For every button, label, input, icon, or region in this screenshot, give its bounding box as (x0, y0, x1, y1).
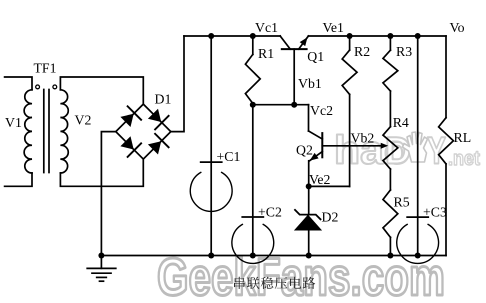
wire V2 bottom to bridge AC bottom (60, 159, 143, 186)
ground symbol (87, 256, 116, 282)
watermark haoDIY.net (334, 129, 480, 173)
svg-text:Ve1: Ve1 (323, 20, 345, 35)
wire bridge plus to top rail (171, 36, 184, 132)
svg-text:RL: RL (454, 130, 472, 145)
wire top rail Vc1 segment (184, 35, 280, 37)
svg-text:D2: D2 (322, 210, 339, 225)
wire C2 branch (252, 105, 254, 256)
svg-text:R4: R4 (393, 115, 409, 130)
zener diode D2 (294, 210, 322, 256)
wire Ve2 to R2 bottom (309, 185, 350, 187)
transformer TF1 primary winding V1 (24, 90, 32, 173)
svg-text:D1: D1 (155, 92, 172, 107)
resistor R1 (245, 36, 260, 105)
svg-text:Vc2: Vc2 (310, 103, 333, 118)
wire C3 branch (417, 36, 419, 256)
resistor R5 (383, 169, 398, 255)
diode D1 top-left (120, 106, 141, 127)
svg-text:Vb2: Vb2 (351, 131, 375, 146)
transformer TF1 primary lead wire (5, 77, 32, 90)
diode D1 bottom-left (120, 136, 141, 157)
svg-text:Vb1: Vb1 (298, 76, 322, 91)
wire C1 branch (210, 36, 212, 256)
diode D1 top-right (148, 109, 169, 130)
capacitor C3 (397, 217, 439, 263)
svg-text:+C2: +C2 (258, 205, 282, 220)
transformer phase dot right (53, 85, 57, 89)
transformer TF1 secondary winding V2 (60, 90, 68, 173)
wire Vb2 with wiper arrow (322, 143, 388, 149)
capacitor C2 (232, 217, 274, 263)
svg-text:Ve2: Ve2 (309, 172, 331, 187)
junction dots top rail (208, 33, 421, 39)
junction dot node Ve2 (306, 183, 312, 189)
svg-text:Q1: Q1 (307, 49, 324, 64)
svg-text:V1: V1 (5, 115, 22, 130)
transistor Q2 (309, 131, 323, 186)
wire bottom ground rail (101, 255, 446, 257)
wire bridge minus to ground rail (101, 132, 115, 256)
diode D1 bottom-right (148, 134, 169, 155)
svg-text:R5: R5 (394, 195, 410, 210)
transformer phase dot left (36, 85, 40, 89)
wire V2 top to bridge AC top (60, 77, 143, 104)
svg-text:V2: V2 (75, 113, 92, 128)
svg-text:+C3: +C3 (423, 205, 447, 220)
svg-text:Vc1: Vc1 (255, 20, 278, 35)
svg-text:R1: R1 (258, 46, 274, 61)
junction dots node Vb1 (250, 102, 297, 108)
transformer core (44, 90, 49, 173)
svg-text:Vo: Vo (450, 20, 465, 35)
svg-text:R2: R2 (354, 44, 370, 59)
bridge rectifier D1 diamond (116, 104, 171, 159)
svg-text:TF1: TF1 (34, 61, 57, 76)
svg-text:Q2: Q2 (296, 143, 313, 158)
junction dots bottom rail (98, 253, 420, 259)
potentiometer R4 (383, 91, 398, 169)
svg-text:.net: .net (448, 148, 480, 170)
transistor Q1 (280, 36, 308, 105)
watermark GeekFans.com (157, 248, 445, 303)
wire top rail Ve1 segment (308, 35, 446, 37)
wire D2 top (308, 186, 310, 214)
wire node Vb1 horizontal (253, 104, 309, 106)
svg-text:+C1: +C1 (217, 149, 241, 164)
resistor R2 (342, 36, 357, 186)
svg-text:R3: R3 (396, 44, 412, 59)
capacitor C1 (190, 162, 232, 211)
wire Vc2 vertical (308, 105, 310, 131)
resistor RL load (439, 36, 454, 256)
wire V1 bottom lead (5, 173, 32, 186)
resistor R3 (383, 36, 398, 91)
caption 串联稳压电路 (234, 277, 315, 289)
